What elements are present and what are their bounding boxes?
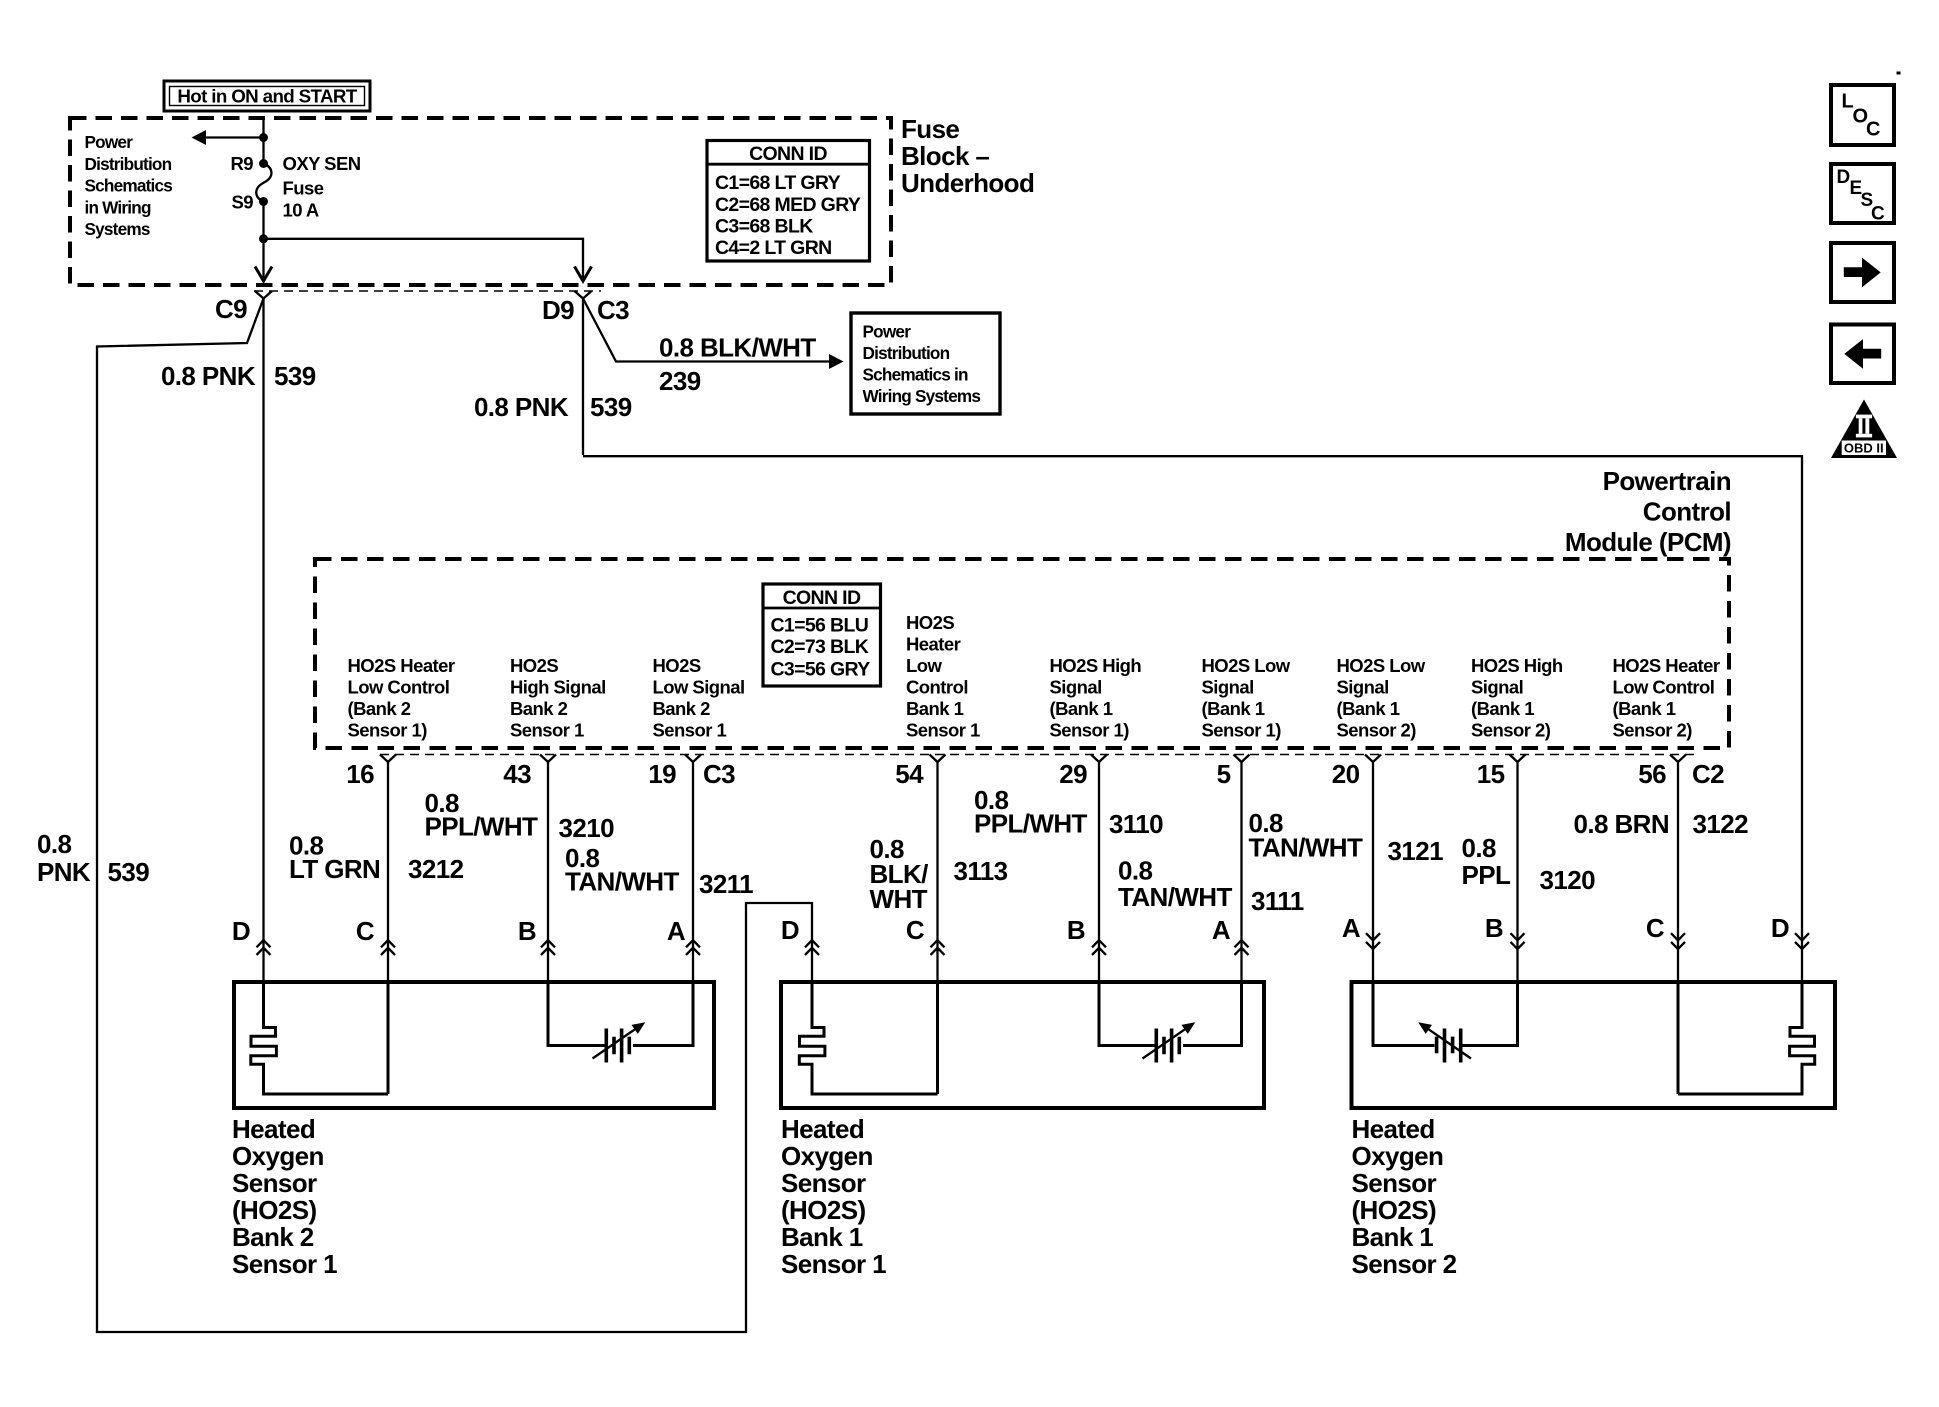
- connector Y at pin 29: [1091, 755, 1107, 763]
- svg-text:WHT: WHT: [870, 884, 928, 914]
- svg-text:239: 239: [659, 366, 701, 396]
- svg-text:Bank 1: Bank 1: [1352, 1222, 1434, 1252]
- svg-text:Signal: Signal: [1471, 677, 1523, 698]
- svg-text:Bank 2: Bank 2: [510, 698, 568, 719]
- svg-text:3111: 3111: [1251, 886, 1304, 916]
- svg-text:B: B: [518, 916, 536, 946]
- svg-text:D: D: [1771, 913, 1789, 943]
- svg-text:Low Signal: Low Signal: [653, 677, 745, 698]
- arrowhead open V at C9: [255, 267, 272, 282]
- sensor2 cell plates: [1156, 1029, 1179, 1063]
- svg-text:Sensor: Sensor: [1352, 1168, 1437, 1198]
- wire: pin29 to sensor2 B, 0.8 PPL/WHT 3110: [1098, 762, 1100, 982]
- svg-text:Hot in ON and START: Hot in ON and START: [177, 86, 357, 107]
- svg-text:C3=56 GRY: C3=56 GRY: [771, 659, 871, 681]
- junction dot for branch to D9: [259, 234, 268, 243]
- arrowhead open V at D9: [575, 267, 592, 282]
- svg-text:HO2S Low: HO2S Low: [1202, 655, 1291, 676]
- sensor2 heater element: [799, 984, 937, 1094]
- svg-text:C3=68 BLK: C3=68 BLK: [715, 216, 813, 238]
- svg-text:A: A: [1212, 915, 1231, 945]
- icon DESC: [1831, 164, 1894, 223]
- svg-text:3120: 3120: [1540, 865, 1596, 895]
- svg-text:PPL/WHT: PPL/WHT: [974, 809, 1088, 839]
- svg-text:D9: D9: [542, 295, 574, 325]
- svg-text:0.8: 0.8: [1462, 833, 1496, 863]
- svg-text:C: C: [1646, 913, 1665, 943]
- connector Y at pin 15: [1510, 755, 1526, 763]
- svg-text:Oxygen: Oxygen: [1352, 1141, 1444, 1171]
- SECTION: connector row C9 D9: [161, 291, 1000, 422]
- svg-text:HO2S: HO2S: [653, 655, 701, 676]
- svg-text:3122: 3122: [1693, 809, 1749, 839]
- sensor1 A internal wire to cell: [633, 984, 693, 1046]
- wire: pin16 to sensor1 C, 0.8 LT GRN 3212: [387, 762, 389, 982]
- svg-text:56: 56: [1638, 759, 1666, 789]
- svg-text:C1=56 BLU: C1=56 BLU: [771, 615, 869, 637]
- sensor3 cell variable arrow (mirrored): [1424, 1026, 1472, 1059]
- svg-text:Sensor 2): Sensor 2): [1471, 720, 1551, 741]
- svg-text:Heated: Heated: [781, 1114, 864, 1144]
- svg-text:in Wiring: in Wiring: [85, 198, 151, 218]
- svg-text:C9: C9: [215, 294, 247, 324]
- svg-text:3113: 3113: [954, 856, 1008, 886]
- chevrons sensor1 A: [686, 940, 700, 955]
- wire: feed from Hot into fuse: [262, 116, 264, 164]
- junction dot: [259, 133, 268, 142]
- svg-text:HO2S Low: HO2S Low: [1337, 655, 1426, 676]
- svg-text:Fuse: Fuse: [901, 114, 959, 144]
- sensor1 box: Heated Oxygen Sensor (HO2S) Bank 2 Sensor 1: [234, 982, 714, 1108]
- svg-text:OBD II: OBD II: [1844, 441, 1884, 456]
- wire: pin20 to sensor3 A, 0.8 TAN/WHT 3121: [1372, 762, 1374, 982]
- svg-text:Block –: Block –: [901, 141, 989, 171]
- svg-text:Low: Low: [906, 655, 943, 676]
- label box "Hot in ON and START": [164, 81, 370, 111]
- svg-text:C: C: [1866, 119, 1880, 141]
- sensor3 heater element (mirrored): [1678, 984, 1815, 1094]
- fuse F9 OXY SEN terminals R9 S9: [259, 159, 268, 168]
- connector Y at pin 19: [685, 755, 701, 763]
- svg-text:0.8 PNK: 0.8 PNK: [161, 361, 256, 391]
- svg-text:CONN ID: CONN ID: [749, 143, 827, 165]
- svg-text:Sensor 1: Sensor 1: [510, 720, 584, 741]
- svg-text:(HO2S): (HO2S): [232, 1195, 317, 1225]
- sensor3 box: Heated Oxygen Sensor (HO2S) Bank 1 Sensor 2: [1352, 982, 1836, 1108]
- sensor1 C internal wire: [387, 984, 390, 1094]
- svg-text:Heater: Heater: [906, 634, 961, 655]
- svg-text:Schematics in: Schematics in: [863, 365, 968, 385]
- svg-text:Fuse: Fuse: [283, 178, 324, 199]
- sensor1 cell variable arrow: [593, 1026, 641, 1059]
- svg-text:3212: 3212: [408, 854, 464, 884]
- svg-text:D: D: [1837, 167, 1851, 188]
- connector Y at pin 5: [1234, 755, 1250, 763]
- svg-text:Bank 2: Bank 2: [232, 1222, 314, 1252]
- svg-text:C2=73 BLK: C2=73 BLK: [771, 636, 869, 658]
- wire: pin19/C3 to sensor1 A, 0.8 TAN/WHT 3211: [692, 762, 694, 982]
- sensor3 B internal wire to cell: [1462, 984, 1518, 1046]
- SECTION: sensors: [232, 913, 1835, 1279]
- arrowhead right: [829, 354, 844, 369]
- chevrons sensor3 D: [1795, 933, 1809, 949]
- svg-text:CONN ID: CONN ID: [783, 587, 861, 609]
- svg-text:High Signal: High Signal: [510, 677, 606, 698]
- wire: pin15 to sensor3 B, 0.8 PPL 3120: [1516, 762, 1518, 982]
- svg-text:Oxygen: Oxygen: [232, 1141, 324, 1171]
- svg-text:43: 43: [503, 759, 531, 789]
- terminal dot S9: [259, 197, 268, 206]
- svg-text:Underhood: Underhood: [901, 168, 1034, 198]
- svg-text:0.8 PNK: 0.8 PNK: [474, 392, 569, 422]
- svg-text:(Bank 1: (Bank 1: [1337, 698, 1400, 719]
- wire: branch to power distribution (left arrow): [204, 136, 264, 138]
- svg-text:3210: 3210: [559, 813, 615, 843]
- svg-text:Powertrain: Powertrain: [1603, 466, 1731, 496]
- svg-text:20: 20: [1332, 759, 1360, 789]
- svg-text:Power: Power: [863, 322, 912, 342]
- sensor1 B internal wire to cell: [548, 984, 605, 1046]
- sensor2 box: Heated Oxygen Sensor (HO2S) Bank 1 Sensor 1: [781, 982, 1264, 1108]
- svg-text:(Bank 2: (Bank 2: [348, 698, 411, 719]
- svg-text:Signal: Signal: [1050, 677, 1102, 698]
- connector Y at pin 16: [380, 755, 396, 763]
- svg-text:C: C: [1871, 204, 1885, 225]
- svg-text:16: 16: [346, 759, 374, 789]
- icon OBD II triangle: [1831, 400, 1897, 459]
- svg-text:Low Control: Low Control: [348, 677, 450, 698]
- svg-text:Sensor 1: Sensor 1: [232, 1249, 337, 1279]
- svg-text:C2=68 MED GRY: C2=68 MED GRY: [715, 194, 861, 216]
- svg-text:HO2S High: HO2S High: [1471, 655, 1563, 676]
- svg-text:C3: C3: [703, 759, 735, 789]
- wire: pin5 to sensor2 A, 0.8 TAN/WHT 3111: [1240, 762, 1242, 982]
- svg-text:Sensor 1: Sensor 1: [781, 1249, 886, 1279]
- sensor2 C internal wire: [936, 984, 939, 1094]
- svg-text:Sensor 2: Sensor 2: [1352, 1249, 1457, 1279]
- svg-text:HO2S: HO2S: [510, 655, 558, 676]
- chevrons sensor1 C: [381, 940, 395, 955]
- ink speck (scan artifact): [1897, 72, 1901, 75]
- wire: 0.8 BLK/WHT 239 branch from C3: [583, 299, 831, 362]
- svg-text:Sensor 2): Sensor 2): [1337, 720, 1417, 741]
- svg-text:C: C: [906, 915, 925, 945]
- SECTION: top fuse block: [70, 81, 1034, 285]
- svg-text:(HO2S): (HO2S): [1352, 1195, 1437, 1225]
- svg-text:539: 539: [590, 392, 632, 422]
- sensor1 heater element: [251, 984, 388, 1094]
- svg-text:PPL: PPL: [1462, 860, 1511, 890]
- sensor3 A internal wire to cell: [1373, 984, 1435, 1046]
- connector Y at pin 20: [1365, 755, 1381, 763]
- svg-text:3110: 3110: [1109, 809, 1163, 839]
- SECTION: right icons: [1831, 85, 1897, 458]
- svg-text:3211: 3211: [699, 869, 753, 899]
- svg-text:D: D: [232, 916, 250, 946]
- wire: PNK 539 from D9 down, across at y455, down to Bank1 Sensor2 pin D: [582, 299, 584, 456]
- SECTION: power wires: [37, 299, 1802, 1334]
- svg-text:LT GRN: LT GRN: [289, 854, 380, 884]
- svg-text:B: B: [1067, 915, 1085, 945]
- svg-text:0.8: 0.8: [37, 829, 71, 859]
- svg-text:Sensor 1): Sensor 1): [1050, 720, 1130, 741]
- SECTION: wire columns: [289, 762, 1748, 982]
- connector Y at pin 56: [1670, 755, 1686, 763]
- chevrons sensor3 A: [1366, 933, 1380, 949]
- sensor3 cell plates: [1437, 1029, 1461, 1063]
- svg-text:Schematics: Schematics: [85, 176, 173, 196]
- svg-text:15: 15: [1477, 759, 1505, 789]
- svg-text:C4=2 LT GRN: C4=2 LT GRN: [715, 237, 832, 259]
- svg-text:Bank 2: Bank 2: [653, 698, 711, 719]
- svg-text:539: 539: [108, 857, 150, 887]
- wire: pin43 to sensor1 B, 0.8 PPL/WHT 3210: [547, 762, 549, 982]
- svg-text:HO2S Heater: HO2S Heater: [1613, 655, 1720, 676]
- wire: PNK 539 from C9 straight down to HO2S Bank2 Sensor1 pin D: [262, 299, 264, 983]
- svg-text:Sensor 1): Sensor 1): [1202, 720, 1282, 741]
- connector Y at C9: [255, 291, 272, 299]
- fuse block dashed box (Fuse Block - Underhood): [70, 118, 891, 285]
- svg-text:TAN/WHT: TAN/WHT: [565, 867, 679, 897]
- CONN ID table (PCM): [763, 584, 881, 686]
- chevrons sensor1 B: [541, 940, 555, 955]
- svg-text:Signal: Signal: [1202, 677, 1254, 698]
- wire: PNK 539 branch from C9 to far left and down: [97, 299, 264, 1334]
- svg-text:C2: C2: [1692, 759, 1724, 789]
- svg-text:OXY SEN: OXY SEN: [283, 153, 361, 174]
- connector dashed line (thin) below fuse block: [254, 290, 601, 292]
- svg-text:C1=68 LT GRY: C1=68 LT GRY: [715, 172, 841, 194]
- arrowhead left: [192, 130, 207, 145]
- sensor1 cell plates: [606, 1029, 629, 1063]
- fuse element squiggle: [256, 164, 271, 202]
- connector Y at D9/C3: [575, 291, 592, 299]
- svg-text:10 A: 10 A: [283, 200, 319, 221]
- svg-text:0.8 BRN: 0.8 BRN: [1574, 809, 1670, 839]
- svg-text:539: 539: [274, 361, 316, 391]
- svg-text:Sensor 1): Sensor 1): [348, 720, 428, 741]
- chevrons sensor2 D: [805, 940, 819, 955]
- svg-text:Low Control: Low Control: [1613, 677, 1715, 698]
- chevrons sensor2 A: [1235, 940, 1249, 955]
- svg-text:5: 5: [1217, 759, 1231, 789]
- connector Y at pin 43: [540, 755, 556, 763]
- svg-text:HO2S High: HO2S High: [1050, 655, 1142, 676]
- wire: pin54 to sensor2 C, 0.8 BLK/WHT 3113: [936, 762, 938, 982]
- sensor3 C internal wire: [1677, 984, 1680, 1094]
- svg-text:54: 54: [895, 759, 924, 789]
- svg-text:Heated: Heated: [232, 1114, 315, 1144]
- svg-text:3121: 3121: [1388, 836, 1444, 866]
- chevrons sensor1 D: [257, 940, 271, 955]
- svg-text:Module (PCM): Module (PCM): [1565, 527, 1731, 557]
- svg-text:Distribution: Distribution: [863, 343, 950, 363]
- svg-text:Control: Control: [1643, 497, 1731, 527]
- svg-text:Control: Control: [906, 677, 968, 698]
- svg-text:Sensor: Sensor: [781, 1168, 866, 1198]
- svg-text:(HO2S): (HO2S): [781, 1195, 866, 1225]
- svg-text:Power: Power: [85, 132, 134, 152]
- svg-text:S9: S9: [231, 192, 253, 213]
- svg-text:0.8 BLK/WHT: 0.8 BLK/WHT: [659, 333, 816, 363]
- svg-text:R9: R9: [230, 153, 253, 174]
- svg-text:(Bank 1: (Bank 1: [1471, 698, 1534, 719]
- svg-text:Sensor: Sensor: [232, 1168, 317, 1198]
- svg-text:D: D: [781, 915, 799, 945]
- svg-text:C: C: [356, 916, 375, 946]
- sensor2 B internal wire to cell: [1099, 984, 1155, 1046]
- svg-text:B: B: [1485, 913, 1503, 943]
- svg-text:29: 29: [1059, 759, 1087, 789]
- svg-text:TAN/WHT: TAN/WHT: [1249, 833, 1363, 863]
- svg-text:PPL/WHT: PPL/WHT: [425, 812, 539, 842]
- chevrons sensor3 C: [1671, 933, 1685, 949]
- SECTION: PCM: [315, 466, 1731, 789]
- svg-text:PNK: PNK: [37, 857, 91, 887]
- chevrons sensor2 C: [931, 940, 945, 955]
- box: Power Distribution Schematics in Wiring Systems: [851, 313, 1000, 414]
- chevrons sensor2 B: [1092, 940, 1106, 955]
- svg-text:(Bank 1: (Bank 1: [1050, 698, 1113, 719]
- svg-text:Systems: Systems: [85, 219, 150, 239]
- chevrons sensor3 B: [1511, 933, 1525, 949]
- svg-text:A: A: [1342, 913, 1361, 943]
- icon arrow left: [1831, 325, 1894, 384]
- svg-text:19: 19: [648, 759, 676, 789]
- svg-text:Sensor 2): Sensor 2): [1613, 720, 1693, 741]
- svg-text:A: A: [667, 916, 686, 946]
- wire: branch over to D9 drop: [264, 239, 584, 281]
- svg-text:Oxygen: Oxygen: [781, 1141, 873, 1171]
- icon arrow right: [1831, 243, 1894, 302]
- connector Y at pin 54: [930, 755, 946, 763]
- svg-text:(Bank 1: (Bank 1: [1202, 698, 1265, 719]
- sensor2 cell variable arrow: [1143, 1026, 1191, 1059]
- svg-text:C3: C3: [597, 295, 629, 325]
- connector dashed line (thin) below PCM: [380, 754, 1695, 756]
- PCM dashed box: [315, 559, 1729, 748]
- svg-text:Signal: Signal: [1337, 677, 1389, 698]
- icon LOC: [1831, 85, 1894, 145]
- svg-text:Bank 1: Bank 1: [781, 1222, 863, 1252]
- svg-text:TAN/WHT: TAN/WHT: [1118, 882, 1232, 912]
- svg-text:Distribution: Distribution: [85, 154, 172, 174]
- wire: fuse output down: [262, 202, 264, 282]
- svg-text:Heated: Heated: [1352, 1114, 1435, 1144]
- svg-text:Sensor 1: Sensor 1: [906, 720, 980, 741]
- svg-text:Wiring Systems: Wiring Systems: [863, 386, 981, 406]
- svg-text:HO2S Heater: HO2S Heater: [348, 655, 455, 676]
- svg-text:HO2S: HO2S: [906, 612, 954, 633]
- svg-text:0.8: 0.8: [1118, 856, 1152, 886]
- sensor2 A internal wire to cell: [1183, 984, 1242, 1046]
- CONN ID table (fuse block): [707, 141, 870, 262]
- svg-text:Bank 1: Bank 1: [906, 698, 964, 719]
- svg-text:Sensor 1: Sensor 1: [653, 720, 727, 741]
- svg-text:(Bank 1: (Bank 1: [1613, 698, 1676, 719]
- wire: pin56/C2 to sensor3 C, 0.8 BRN 3122: [1677, 762, 1679, 982]
